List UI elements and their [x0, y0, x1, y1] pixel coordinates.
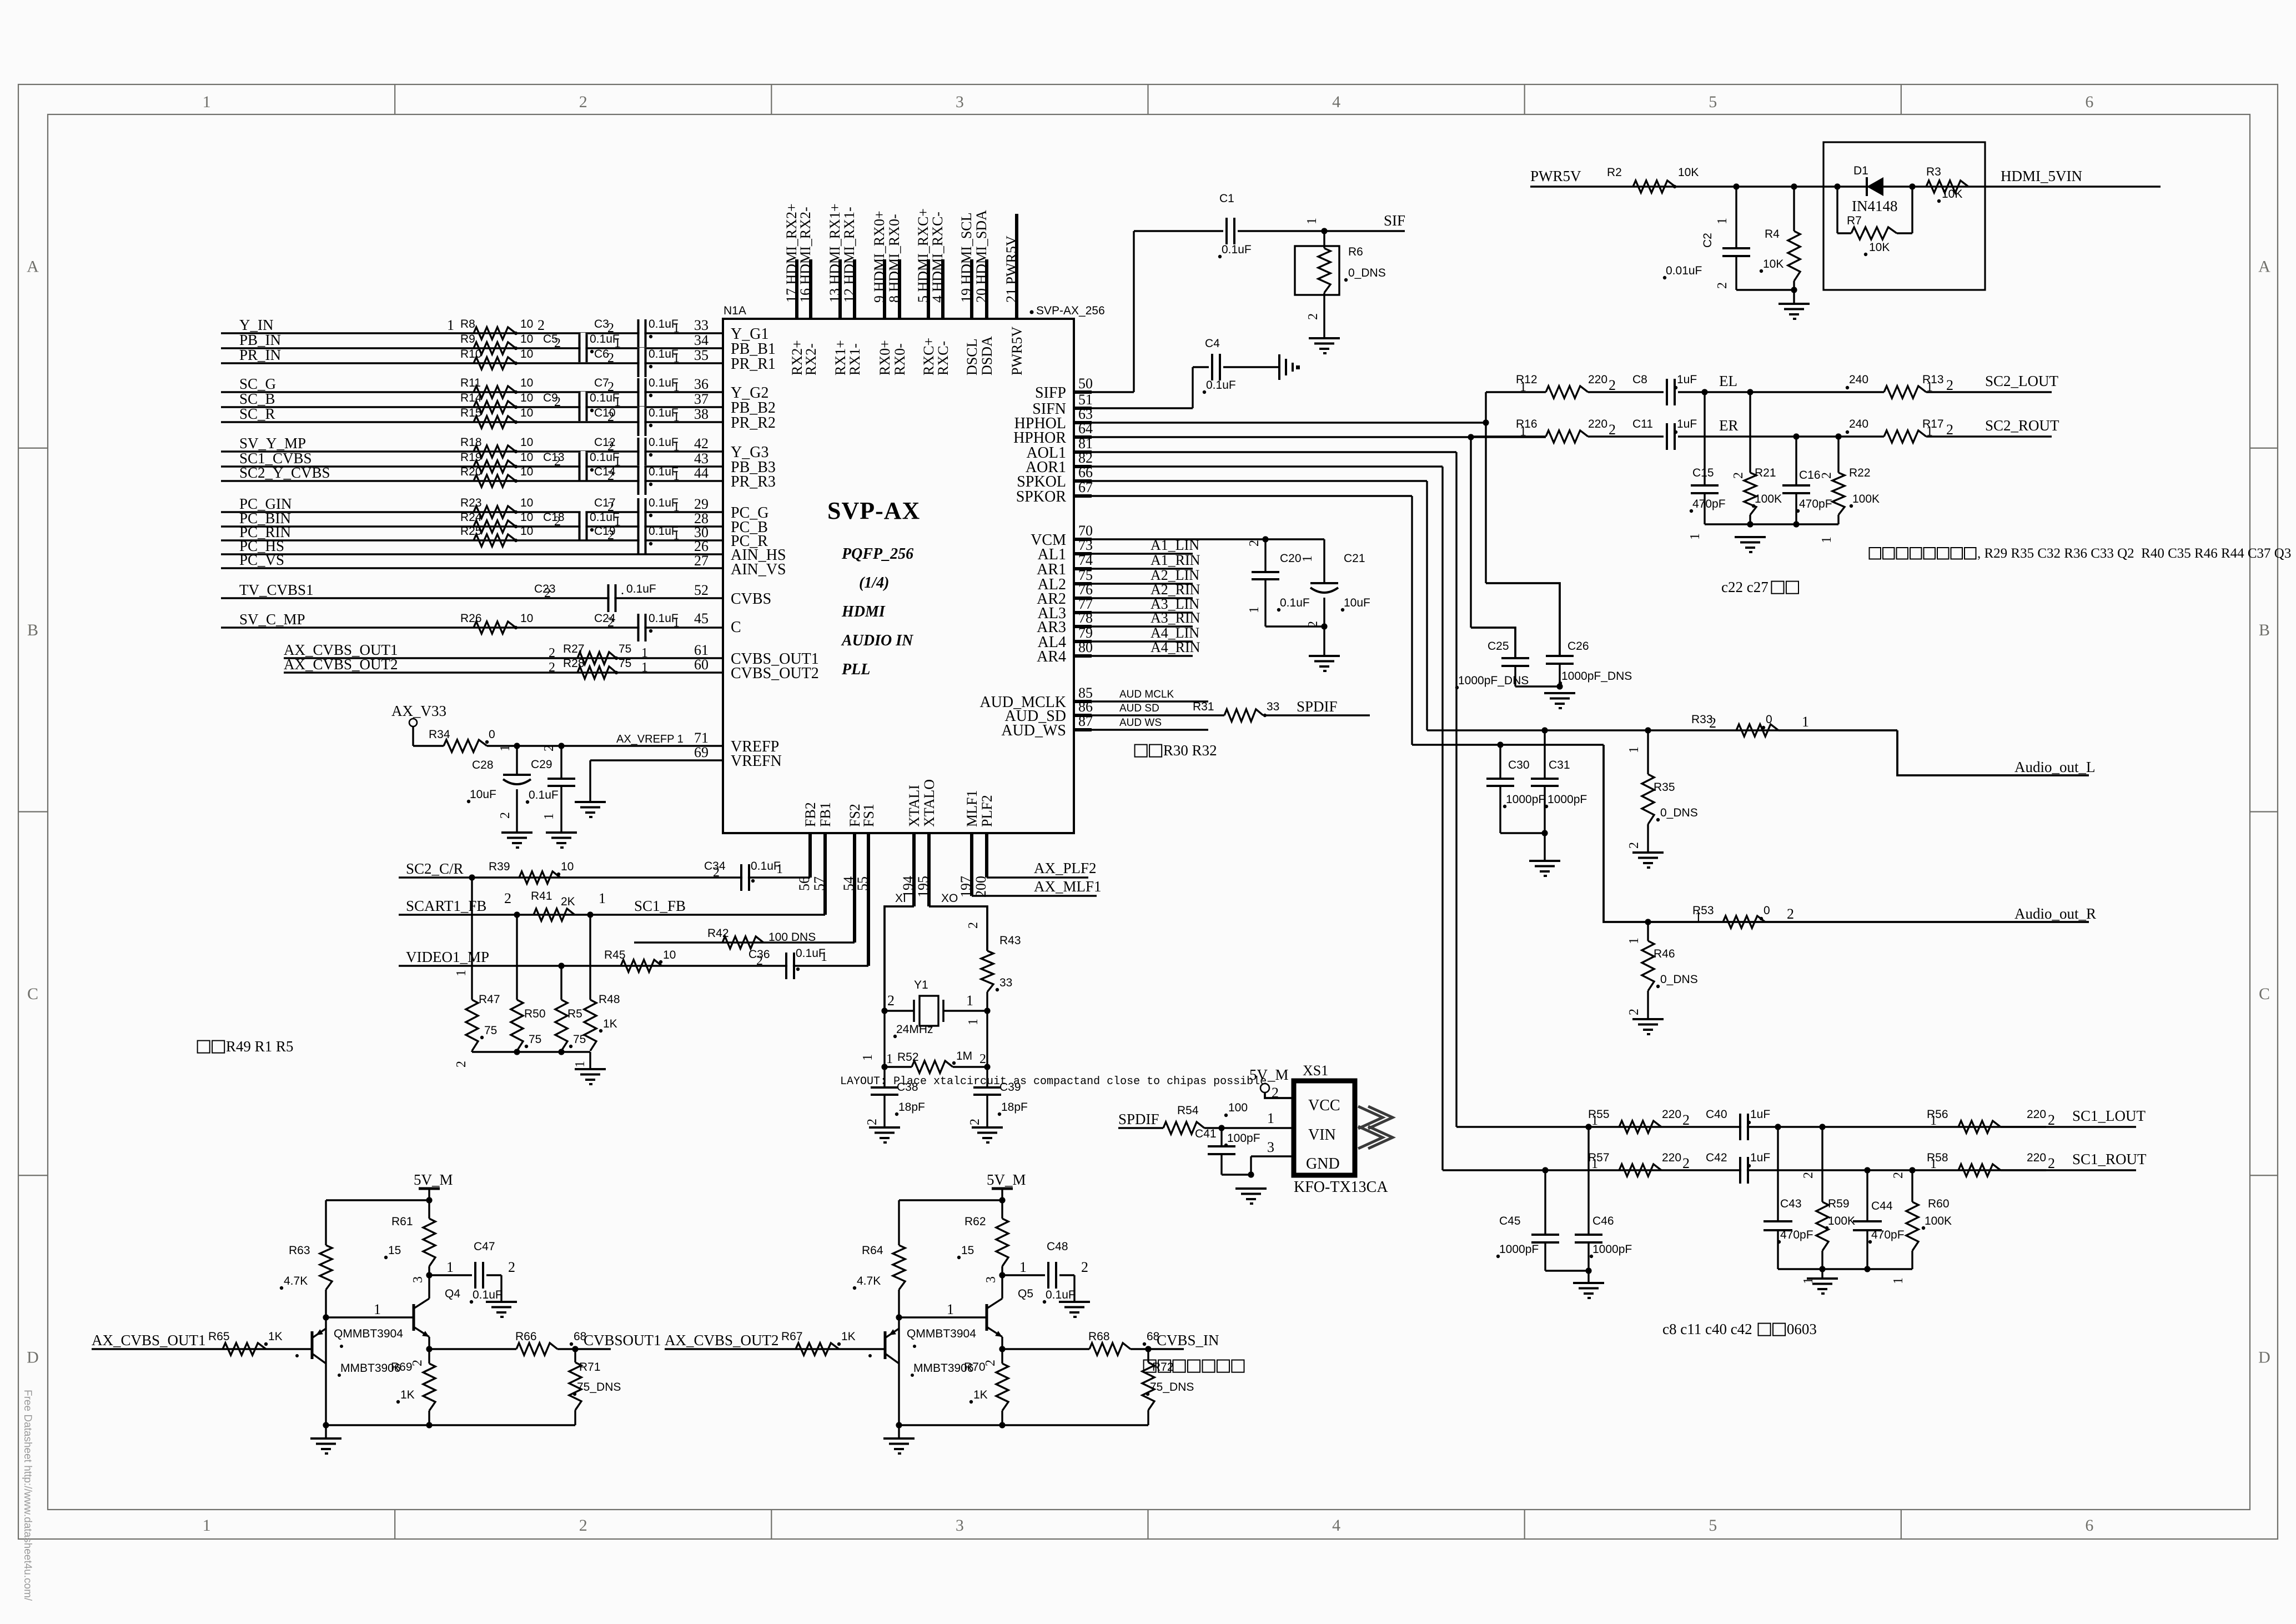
svg-text:MLF1: MLF1 — [964, 790, 980, 827]
svg-text:34: 34 — [694, 332, 709, 348]
svg-text:12 HDMI_RX1-: 12 HDMI_RX1- — [841, 207, 857, 303]
svg-text:2: 2 — [1247, 540, 1262, 547]
svg-text:2: 2 — [554, 395, 561, 409]
svg-text:1K: 1K — [603, 1017, 617, 1030]
svg-text:36: 36 — [694, 376, 709, 392]
svg-text:R49 R1 R5: R49 R1 R5 — [226, 1038, 294, 1055]
svg-text:A4_RIN: A4_RIN — [1150, 639, 1200, 655]
svg-text:R61: R61 — [391, 1215, 413, 1228]
svg-text:Q4: Q4 — [445, 1287, 460, 1300]
svg-text:Audio_out_L: Audio_out_L — [2014, 759, 2096, 775]
svg-text:PC_VS: PC_VS — [239, 552, 284, 568]
svg-text:1: 1 — [446, 1259, 454, 1275]
svg-text:63: 63 — [1078, 406, 1093, 422]
svg-text:35: 35 — [694, 347, 709, 363]
svg-text:SC2_LOUT: SC2_LOUT — [1985, 373, 2059, 389]
svg-text:ER: ER — [1719, 417, 1739, 434]
svg-text:R66: R66 — [515, 1330, 537, 1343]
svg-text:1: 1 — [673, 500, 680, 514]
svg-text:R12: R12 — [1516, 373, 1538, 386]
svg-text:8 HDMI_RX0-: 8 HDMI_RX0- — [886, 214, 902, 303]
svg-text:R67: R67 — [781, 1330, 803, 1343]
svg-text:C29: C29 — [531, 758, 552, 771]
svg-text:3: 3 — [956, 1516, 964, 1535]
svg-text:VREFN: VREFN — [731, 753, 782, 770]
svg-text:c22 c27: c22 c27 — [1721, 579, 1769, 595]
svg-text:2: 2 — [756, 954, 763, 968]
svg-text:100K: 100K — [1852, 493, 1880, 505]
svg-text:VIN: VIN — [1308, 1126, 1336, 1144]
svg-text:PR_R1: PR_R1 — [731, 355, 776, 373]
svg-text:42: 42 — [694, 435, 709, 452]
svg-text:6: 6 — [2085, 93, 2093, 111]
svg-text:2: 2 — [549, 660, 555, 675]
svg-text:2: 2 — [887, 993, 895, 1009]
svg-text:10: 10 — [520, 333, 533, 345]
svg-text:1K: 1K — [268, 1330, 283, 1343]
svg-text:1: 1 — [573, 1061, 587, 1067]
svg-text:3: 3 — [411, 1276, 425, 1283]
svg-text:R31: R31 — [1193, 700, 1214, 713]
svg-text:1: 1 — [673, 380, 680, 394]
svg-text:SCART1_FB: SCART1_FB — [406, 898, 486, 914]
svg-text:50: 50 — [1078, 375, 1093, 392]
svg-text:R30 R32: R30 R32 — [1163, 742, 1217, 759]
svg-text:10K: 10K — [1942, 188, 1962, 201]
svg-text:C25: C25 — [1488, 640, 1509, 653]
svg-text:1: 1 — [673, 321, 680, 335]
svg-text:2: 2 — [1627, 1009, 1641, 1015]
svg-text:A3_RIN: A3_RIN — [1150, 610, 1200, 626]
svg-text:2: 2 — [983, 1360, 998, 1366]
svg-text:2: 2 — [508, 1259, 515, 1275]
svg-text:R7: R7 — [1847, 214, 1862, 227]
svg-text:R19: R19 — [460, 451, 482, 464]
svg-text:C43: C43 — [1780, 1197, 1802, 1210]
svg-text:C: C — [731, 619, 741, 636]
svg-text:VCC: VCC — [1308, 1097, 1340, 1114]
svg-text:2: 2 — [1801, 1172, 1816, 1179]
svg-text:C7: C7 — [594, 377, 609, 389]
svg-text:1: 1 — [1802, 714, 1809, 730]
svg-text:C48: C48 — [1047, 1240, 1068, 1253]
svg-text:R63: R63 — [289, 1244, 310, 1257]
svg-text:A2_LIN: A2_LIN — [1150, 567, 1199, 583]
svg-text:1: 1 — [673, 410, 680, 424]
svg-text:R46: R46 — [1654, 948, 1675, 960]
svg-text:1: 1 — [1627, 938, 1641, 944]
svg-text:A2_RIN: A2_RIN — [1150, 582, 1200, 598]
svg-text:R39: R39 — [489, 860, 510, 873]
svg-text:R16: R16 — [1516, 418, 1538, 430]
svg-text:2: 2 — [607, 528, 614, 543]
svg-text:C11: C11 — [1632, 418, 1653, 430]
svg-text:220: 220 — [2027, 1151, 2046, 1164]
svg-text:2: 2 — [1820, 472, 1834, 479]
svg-text:R35: R35 — [1654, 781, 1675, 794]
svg-text:5 HDMI_RXC+: 5 HDMI_RXC+ — [915, 208, 931, 303]
svg-text:D: D — [2258, 1349, 2270, 1367]
svg-text:2: 2 — [1891, 1172, 1906, 1179]
svg-text:1: 1 — [1930, 1157, 1937, 1171]
svg-text:2: 2 — [713, 865, 720, 880]
svg-text:2: 2 — [537, 317, 545, 333]
svg-text:C1: C1 — [1219, 192, 1234, 205]
svg-text:2: 2 — [544, 586, 551, 600]
svg-text:51: 51 — [1078, 392, 1093, 408]
svg-text:C45: C45 — [1499, 1215, 1521, 1227]
svg-text:2: 2 — [1306, 621, 1320, 628]
svg-text:A4_LIN: A4_LIN — [1150, 625, 1199, 641]
svg-text:R11: R11 — [460, 377, 481, 389]
svg-text:1: 1 — [203, 93, 211, 111]
svg-text:1000pF: 1000pF — [1592, 1243, 1632, 1256]
svg-text:PR_R3: PR_R3 — [731, 473, 776, 490]
svg-text:A: A — [2258, 257, 2270, 275]
svg-text:1: 1 — [1305, 218, 1319, 224]
svg-text:1000pF: 1000pF — [1548, 793, 1587, 806]
svg-text:AX_PLF2: AX_PLF2 — [1034, 860, 1097, 876]
svg-text:C8: C8 — [1632, 373, 1647, 386]
svg-text:0.1uF: 0.1uF — [473, 1289, 503, 1301]
svg-text:15: 15 — [961, 1244, 974, 1257]
svg-text:AX_CVBS_OUT1: AX_CVBS_OUT1 — [92, 1332, 206, 1349]
svg-text:2: 2 — [979, 1052, 986, 1066]
svg-text:Audio_out_R: Audio_out_R — [2014, 905, 2096, 922]
svg-text:AR4: AR4 — [1037, 648, 1066, 665]
svg-text:75: 75 — [573, 1033, 586, 1046]
svg-text:100K: 100K — [1828, 1215, 1855, 1227]
svg-text:Y_IN: Y_IN — [239, 317, 274, 333]
svg-text:R62: R62 — [964, 1215, 986, 1228]
svg-text:DSCL: DSCL — [964, 339, 980, 375]
svg-text:220: 220 — [1662, 1108, 1681, 1121]
svg-text:1: 1 — [1930, 1114, 1937, 1128]
svg-text:c8 c11 c40 c42: c8 c11 c40 c42 — [1662, 1321, 1752, 1337]
svg-text:24MHz: 24MHz — [896, 1023, 933, 1036]
svg-text:R24: R24 — [460, 511, 482, 524]
svg-text:R22: R22 — [1849, 467, 1871, 479]
svg-text:10: 10 — [520, 612, 533, 625]
svg-text:1: 1 — [454, 970, 469, 976]
svg-text:SPDIF: SPDIF — [1118, 1111, 1159, 1127]
svg-text:R68: R68 — [1088, 1330, 1110, 1343]
svg-text:SC_B: SC_B — [239, 390, 275, 407]
svg-text:56: 56 — [796, 876, 812, 891]
svg-text:197: 197 — [958, 876, 974, 898]
svg-text:10K: 10K — [1763, 258, 1783, 270]
svg-text:87: 87 — [1078, 713, 1093, 729]
svg-text:XI: XI — [895, 892, 906, 905]
svg-text:IN4148: IN4148 — [1852, 198, 1898, 214]
svg-text:19 HDMI_SCL: 19 HDMI_SCL — [958, 212, 974, 303]
svg-text:R18: R18 — [460, 436, 482, 449]
svg-text:C4: C4 — [1205, 337, 1220, 350]
svg-text:HDMI: HDMI — [841, 603, 886, 620]
svg-text:3: 3 — [956, 93, 964, 111]
svg-text:10: 10 — [520, 348, 533, 360]
svg-text:2: 2 — [865, 1119, 880, 1125]
svg-text:XO: XO — [941, 892, 958, 905]
svg-text:0.1uF: 0.1uF — [1046, 1289, 1076, 1301]
svg-text:20 HDMI_SDA: 20 HDMI_SDA — [973, 210, 989, 303]
svg-text:CVBS: CVBS — [731, 590, 771, 608]
svg-text:C21: C21 — [1344, 552, 1365, 565]
svg-text:XS1: XS1 — [1303, 1062, 1328, 1079]
svg-text:R71: R71 — [579, 1361, 601, 1374]
svg-text:SC_R: SC_R — [239, 405, 275, 422]
svg-text:1: 1 — [1688, 533, 1702, 540]
svg-text:KFO-TX13CA: KFO-TX13CA — [1294, 1179, 1388, 1196]
svg-text:1: 1 — [498, 745, 513, 751]
svg-text:R52: R52 — [897, 1051, 919, 1064]
svg-text:0: 0 — [1764, 904, 1770, 917]
svg-text:R10: R10 — [460, 348, 482, 360]
svg-text:AX_MLF1: AX_MLF1 — [1034, 878, 1102, 895]
svg-text:100: 100 — [1228, 1101, 1248, 1114]
svg-text:C42: C42 — [1706, 1151, 1727, 1164]
svg-text:74: 74 — [1078, 552, 1093, 568]
svg-text:1K: 1K — [400, 1389, 415, 1401]
svg-text:AX_V33: AX_V33 — [391, 703, 446, 719]
svg-text:C15: C15 — [1692, 467, 1714, 479]
svg-text:82: 82 — [1078, 450, 1093, 466]
svg-text:1: 1 — [1591, 1114, 1598, 1128]
svg-text:LAYOUT: Place xtalcircuit as c: LAYOUT: Place xtalcircuit as compactand … — [840, 1075, 1267, 1088]
svg-text:10: 10 — [520, 318, 533, 330]
svg-text:79: 79 — [1078, 625, 1093, 641]
svg-text:1uF: 1uF — [1677, 373, 1697, 386]
svg-text:2: 2 — [1306, 313, 1320, 320]
svg-text:0: 0 — [1766, 713, 1772, 726]
svg-text:1: 1 — [641, 660, 648, 675]
svg-text:2: 2 — [410, 1360, 425, 1366]
svg-text:4 HDMI_RXC-: 4 HDMI_RXC- — [930, 212, 946, 303]
svg-text:R65: R65 — [208, 1330, 230, 1343]
svg-text:2: 2 — [554, 454, 561, 469]
svg-text:R27: R27 — [563, 643, 585, 655]
svg-text:Y1: Y1 — [914, 979, 928, 991]
svg-text:76: 76 — [1078, 582, 1093, 598]
svg-text:PB_IN: PB_IN — [239, 332, 281, 348]
svg-text:2: 2 — [1682, 1112, 1690, 1128]
svg-text:4.7K: 4.7K — [284, 1275, 308, 1287]
svg-text:10K: 10K — [1678, 166, 1699, 179]
svg-text:C44: C44 — [1871, 1200, 1893, 1212]
svg-text:10: 10 — [520, 497, 533, 509]
svg-text:2: 2 — [1081, 1259, 1088, 1275]
svg-text:0.1uF: 0.1uF — [529, 789, 559, 801]
svg-text:R42: R42 — [707, 927, 729, 940]
svg-text:0_DNS: 0_DNS — [1660, 973, 1698, 986]
svg-text:1: 1 — [1801, 1277, 1816, 1284]
svg-text:D1: D1 — [1853, 164, 1868, 177]
svg-text:R48: R48 — [599, 993, 620, 1006]
svg-text:66: 66 — [1078, 464, 1093, 480]
svg-text:1: 1 — [1247, 607, 1262, 613]
svg-text:AX_CVBS_OUT2: AX_CVBS_OUT2 — [665, 1332, 779, 1349]
svg-text:10: 10 — [520, 511, 533, 524]
svg-text:29: 29 — [694, 496, 709, 512]
svg-text:5: 5 — [1709, 1516, 1717, 1535]
svg-text:1: 1 — [966, 1019, 981, 1025]
svg-text:220: 220 — [1588, 373, 1607, 386]
svg-text:2: 2 — [607, 351, 614, 365]
svg-text:2: 2 — [1627, 842, 1641, 849]
svg-text:SV_Y_MP: SV_Y_MP — [239, 435, 306, 452]
svg-text:SC2_C/R: SC2_C/R — [406, 860, 464, 877]
svg-text:43: 43 — [694, 450, 709, 467]
svg-text:3: 3 — [984, 1276, 998, 1283]
svg-text:2: 2 — [554, 514, 561, 529]
svg-text:100K: 100K — [1755, 493, 1782, 505]
svg-text:R2: R2 — [1607, 166, 1622, 179]
svg-text:QMMBT3904: QMMBT3904 — [907, 1327, 976, 1340]
svg-text:XTALI: XTALI — [906, 785, 922, 827]
svg-text:10: 10 — [520, 465, 533, 478]
svg-text:0: 0 — [489, 728, 495, 741]
svg-text:2: 2 — [1731, 472, 1746, 479]
svg-text:R43: R43 — [999, 934, 1021, 947]
svg-text:45: 45 — [694, 610, 709, 626]
svg-text:SVP-AX: SVP-AX — [827, 497, 920, 524]
svg-text:1: 1 — [947, 1301, 954, 1317]
svg-text:1000pF: 1000pF — [1506, 793, 1545, 806]
svg-text:2: 2 — [966, 922, 981, 929]
svg-text:1: 1 — [1300, 555, 1315, 562]
svg-text:A1_LIN: A1_LIN — [1150, 537, 1199, 553]
svg-text:R70: R70 — [964, 1361, 986, 1374]
svg-text:73: 73 — [1078, 537, 1093, 553]
svg-text:10: 10 — [520, 451, 533, 464]
svg-text:10: 10 — [520, 407, 533, 419]
svg-text:61: 61 — [694, 642, 709, 658]
svg-text:1: 1 — [447, 317, 454, 333]
svg-text:CVBS_IN: CVBS_IN — [1157, 1332, 1219, 1349]
svg-text:1: 1 — [374, 1301, 381, 1317]
svg-text:2: 2 — [549, 646, 555, 660]
svg-text:100K: 100K — [1925, 1215, 1952, 1227]
svg-text:1uF: 1uF — [1750, 1108, 1770, 1121]
svg-text:VIDEO1_MP: VIDEO1_MP — [406, 949, 489, 965]
svg-text:0603: 0603 — [1787, 1321, 1817, 1337]
svg-text:RX1+: RX1+ — [832, 340, 848, 375]
svg-text:AUD MCLK: AUD MCLK — [1119, 689, 1174, 700]
svg-text:75: 75 — [484, 1024, 497, 1037]
svg-text:C28: C28 — [472, 759, 494, 771]
svg-text:R14: R14 — [460, 392, 482, 404]
svg-text:470pF: 470pF — [1871, 1229, 1905, 1241]
svg-text:1: 1 — [1019, 1259, 1027, 1275]
svg-text:38: 38 — [694, 406, 709, 422]
svg-text:GND: GND — [1306, 1155, 1340, 1172]
svg-text:R54: R54 — [1177, 1104, 1199, 1117]
svg-text:75: 75 — [619, 643, 631, 655]
svg-text:C41: C41 — [1195, 1127, 1217, 1140]
svg-text:200: 200 — [973, 876, 989, 898]
svg-text:FB2: FB2 — [802, 802, 818, 827]
svg-text:52: 52 — [694, 582, 709, 598]
svg-text:Free Datasheet http://www.data: Free Datasheet http://www.datasheet4u.co… — [22, 1390, 33, 1601]
svg-text:33: 33 — [999, 976, 1012, 989]
svg-text:C30: C30 — [1508, 759, 1530, 771]
svg-text:TV_CVBS1: TV_CVBS1 — [239, 582, 314, 598]
svg-text:(1/4): (1/4) — [859, 574, 889, 592]
svg-text:HDMI_5VIN: HDMI_5VIN — [2001, 168, 2082, 184]
svg-text:10: 10 — [520, 377, 533, 389]
svg-text:1: 1 — [1891, 1277, 1906, 1284]
svg-text:10uF: 10uF — [1344, 597, 1370, 609]
svg-text:SIFP: SIFP — [1035, 384, 1066, 402]
svg-text:0_DNS: 0_DNS — [1660, 806, 1698, 819]
svg-text:1: 1 — [599, 890, 606, 906]
svg-text:4.7K: 4.7K — [857, 1275, 881, 1287]
svg-text:1: 1 — [673, 469, 680, 483]
svg-text:C47: C47 — [474, 1240, 495, 1253]
svg-text:A: A — [27, 257, 39, 275]
svg-text:1: 1 — [673, 615, 680, 630]
svg-text:1: 1 — [886, 1052, 893, 1066]
svg-text:1: 1 — [1520, 424, 1526, 439]
svg-text:1000pF_DNS: 1000pF_DNS — [1458, 674, 1529, 687]
svg-text:1: 1 — [203, 1516, 211, 1535]
svg-text:AUD WS: AUD WS — [1119, 717, 1162, 729]
svg-text:B: B — [2259, 621, 2270, 639]
svg-text:D: D — [27, 1349, 39, 1367]
svg-text:R6: R6 — [1348, 245, 1363, 258]
svg-text:2: 2 — [1709, 715, 1716, 731]
svg-text:2: 2 — [607, 469, 614, 483]
svg-text:80: 80 — [1078, 639, 1093, 655]
svg-text:RX0+: RX0+ — [877, 340, 893, 375]
svg-text:.: . — [621, 583, 624, 598]
svg-text:1uF: 1uF — [1677, 418, 1697, 430]
svg-text:64: 64 — [1078, 420, 1093, 437]
svg-text:1: 1 — [673, 528, 680, 543]
svg-text:C3: C3 — [594, 318, 609, 330]
svg-text:R59: R59 — [1828, 1197, 1850, 1210]
svg-text:220: 220 — [1662, 1151, 1681, 1164]
svg-text:R28: R28 — [563, 657, 585, 670]
svg-text:81: 81 — [1078, 435, 1093, 452]
svg-text:SVP-AX_256: SVP-AX_256 — [1036, 304, 1105, 317]
svg-text:5V_M: 5V_M — [1249, 1066, 1289, 1083]
svg-text:RX1-: RX1- — [847, 343, 863, 375]
svg-text:AUDIO IN: AUDIO IN — [841, 632, 914, 649]
svg-text:R50: R50 — [524, 1008, 546, 1020]
svg-text:4: 4 — [1332, 93, 1340, 111]
svg-text:R20: R20 — [460, 465, 482, 478]
svg-text:2: 2 — [579, 93, 587, 111]
svg-text:QMMBT3904: QMMBT3904 — [334, 1327, 403, 1340]
svg-text:PQFP_256: PQFP_256 — [841, 545, 913, 563]
svg-text:5V_M: 5V_M — [414, 1171, 453, 1188]
svg-text:1: 1 — [673, 439, 680, 454]
svg-text:240: 240 — [1849, 373, 1868, 386]
svg-text:PWR5V: PWR5V — [1530, 168, 1581, 184]
svg-text:SV_C_MP: SV_C_MP — [239, 611, 305, 628]
svg-text:2: 2 — [1715, 282, 1730, 289]
svg-text:1: 1 — [1591, 1157, 1598, 1171]
svg-text:AIN_VS: AIN_VS — [731, 561, 786, 578]
svg-text:0.1uF: 0.1uF — [1222, 243, 1252, 256]
svg-text:10: 10 — [520, 436, 533, 449]
svg-text:6: 6 — [2085, 1516, 2093, 1535]
svg-text:DSDA: DSDA — [979, 336, 995, 375]
svg-text:75: 75 — [529, 1033, 541, 1046]
svg-text:1000pF_DNS: 1000pF_DNS — [1561, 670, 1632, 683]
svg-text:C: C — [27, 985, 38, 1003]
